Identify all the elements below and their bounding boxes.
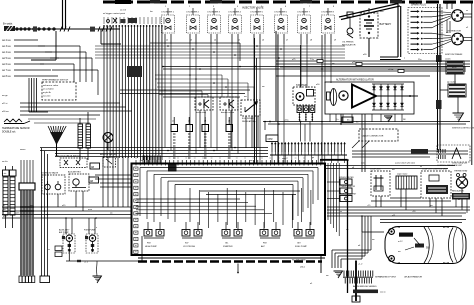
main bus lines (mid) — [40, 148, 468, 158]
solenoid valve — [41, 172, 65, 194]
bus +15 lines (upper right) — [276, 59, 470, 76]
windshield heater element — [396, 172, 417, 189]
trunk top labels — [103, 12, 164, 24]
svg-text:o31w: o31w — [300, 267, 305, 269]
wires from relay boxes — [200, 110, 258, 148]
connector bar A — [78, 124, 83, 148]
cable lug bar (top-left) — [3, 23, 15, 32]
long bus from trunk y66-69 — [163, 66, 470, 70]
injector valve cylinder 8 — [321, 8, 335, 44]
svg-text:CYLINDER 6: CYLINDER 6 — [274, 12, 288, 14]
wires from injectors down — [165, 44, 331, 163]
separating point comb — [343, 271, 422, 284]
svg-text:motor relay: motor relay — [196, 111, 206, 114]
svg-text:onm: onm — [88, 209, 92, 211]
temperature sensor II (coil symbol) — [2, 119, 30, 134]
board AB codes (left column) — [134, 167, 138, 253]
svg-text:REAR PLUG: REAR PLUG — [444, 2, 456, 5]
control pressure unit — [437, 128, 474, 167]
wires under control unit — [20, 103, 132, 123]
svg-text:CYLINDER 3: CYLINDER 3 — [207, 12, 221, 14]
loom top feed wires — [21, 160, 33, 183]
svg-text:SEPARATING POINT: SEPARATING POINT — [375, 276, 397, 279]
starter terminal cluster — [297, 106, 315, 122]
svg-text:TEMPERATURE SENSOR: TEMPERATURE SENSOR — [2, 127, 30, 130]
svg-text:xx: xx — [48, 249, 50, 251]
svg-text:SPARK PLUG: SPARK PLUG — [411, 4, 426, 7]
svg-text:UH ALTERNATOR: UH ALTERNATOR — [404, 276, 422, 279]
feed wires to top border — [63, 0, 66, 29]
svg-text:LAMP CHECK UNIT: LAMP CHECK UNIT — [339, 193, 357, 196]
dimmer sensor — [220, 97, 238, 114]
spark plug leads — [432, 11, 451, 49]
injector valve cylinder 1 — [161, 8, 175, 44]
svg-text:SPEEDOMETER: SPEEDOMETER — [339, 177, 354, 179]
bus lines y90-96 (center) — [120, 90, 250, 97]
svg-text:CABLE CONNECTOR: CABLE CONNECTOR — [362, 135, 384, 138]
junction dots center — [164, 45, 282, 125]
svg-text:xx: xx — [135, 157, 137, 159]
connector code box — [266, 135, 278, 142]
svg-text:OH#: OH# — [268, 138, 274, 141]
svg-text:ALP: ALP — [261, 245, 266, 248]
svg-text:+15w: +15w — [388, 69, 394, 71]
main cable loom — [19, 183, 35, 283]
svg-text:PERFORMANCE SWITCH: PERFORMANCE SWITCH — [42, 79, 69, 82]
svg-text:xx: xx — [143, 157, 145, 159]
svg-text:nw wire: nw wire — [43, 95, 51, 98]
injector valve cylinder 6 — [274, 8, 288, 44]
triple feed wires — [40, 148, 50, 283]
svg-text:xx: xx — [295, 157, 297, 159]
svg-text:xx: xx — [253, 157, 255, 159]
svg-text:DOUBLE w/c: DOUBLE w/c — [2, 132, 16, 134]
svg-text:CONTROL PRESSURE UNIT: CONTROL PRESSURE UNIT — [437, 165, 463, 167]
svg-text:HIGH PUMP: HIGH PUMP — [145, 246, 157, 248]
svg-text:ow 3 res: ow 3 res — [2, 45, 12, 48]
svg-text:xxx xx: xxx xx — [380, 292, 386, 294]
svg-text:xx: xx — [261, 157, 263, 159]
battery — [360, 8, 391, 57]
oil pressure sender — [342, 12, 356, 47]
svg-text:B+ walot: B+ walot — [3, 23, 13, 26]
svg-text:xx: xx — [194, 157, 196, 159]
trunk switch symbol — [107, 18, 138, 23]
injector valve cylinder 5 — [250, 8, 264, 44]
top right corner label — [418, 2, 456, 5]
connector chain wire — [15, 28, 120, 30]
svg-text:IDLE SPEED: IDLE SPEED — [242, 118, 254, 120]
svg-text:AUXILIARY: AUXILIARY — [59, 229, 70, 232]
svg-text:o8: o8 — [310, 40, 312, 42]
board input module (dark) — [168, 165, 177, 172]
connector code AB2 — [89, 177, 99, 183]
right mid component wires — [371, 189, 451, 216]
page border right — [471, 2, 473, 165]
left area routing wires — [38, 46, 98, 95]
injector valve cylinder 4 — [228, 8, 242, 44]
connector bar B — [86, 124, 91, 148]
control unit (left, dashed) — [42, 79, 76, 101]
distributor 2 — [445, 31, 472, 56]
svg-text:aux/at clutch w/b valve: aux/at clutch w/b valve — [395, 162, 416, 165]
cable connector (dashed) — [352, 129, 398, 148]
svg-text:CYLINDER 8: CYLINDER 8 — [321, 12, 335, 14]
main vertical feed (bottom center) — [320, 160, 356, 301]
svg-text:BATTERY: BATTERY — [380, 22, 392, 26]
trigger box — [103, 157, 116, 167]
svg-text:xv: xv — [466, 10, 468, 12]
svg-text:o2: o2 — [166, 40, 168, 42]
svg-text:xx: xx — [152, 157, 154, 159]
svg-text:COMFORT CONTROL UNIT: COMFORT CONTROL UNIT — [422, 168, 448, 170]
board bottom stub — [237, 264, 239, 274]
temperature control unit — [421, 168, 451, 198]
svg-text:o4: o4 — [214, 40, 216, 42]
svg-text:SOLENOID VALVE: SOLENOID VALVE — [41, 172, 59, 175]
board header comb — [143, 156, 161, 164]
center vertical feeders — [255, 31, 323, 163]
svg-text:xx: xx — [227, 157, 229, 159]
svg-text:CYLINDER 4: CYLINDER 4 — [228, 12, 242, 14]
svg-text:REGULATOR: REGULATOR — [342, 44, 356, 47]
bus lines y46-58 — [95, 46, 345, 58]
relay F1E high pump — [144, 222, 164, 248]
svg-text:stroke safety unit: stroke safety unit — [452, 162, 468, 165]
page border top (dashed trim line) — [103, 0, 474, 4]
central electric board (outline) — [132, 164, 326, 256]
injector valve cylinder 2 — [186, 8, 200, 44]
svg-text:CYLINDER 5: CYLINDER 5 — [250, 12, 264, 14]
injector valve cylinder 7 — [297, 8, 311, 44]
svg-text:o3: o3 — [190, 40, 192, 42]
svg-text:wiper motor: wiper motor — [397, 172, 408, 175]
thermostat — [454, 170, 468, 207]
svg-text:xx: xx — [202, 157, 204, 159]
svg-text:o9: o9 — [334, 40, 336, 42]
air flow sensor (circle-X) — [100, 133, 117, 157]
starter-to-connector drops — [301, 122, 311, 142]
lamp check unit box — [327, 193, 357, 202]
left small codes — [48, 246, 62, 257]
board internal wiring mesh — [136, 168, 318, 229]
wire tag smudges under injectors — [166, 40, 336, 42]
spark plug block — [408, 4, 442, 54]
svg-text:xwm: xwm — [282, 158, 287, 160]
svg-text:xwvm: xwvm — [20, 149, 26, 151]
svg-text:ow 5 res: ow 5 res — [2, 57, 12, 60]
svg-text:ALTERNATOR WITH REGULATOR: ALTERNATOR WITH REGULATOR — [336, 79, 374, 82]
ground (pump rail) — [93, 276, 102, 283]
car silhouette (top view) — [385, 227, 466, 264]
idle speed regulator — [241, 100, 260, 123]
svg-text:lwr: lwr — [150, 10, 153, 13]
left vertical wire group — [29, 78, 48, 112]
wires right of board — [328, 163, 341, 268]
svg-text:AUX AIR REG: AUX AIR REG — [68, 171, 81, 174]
feed lines into board (left) — [95, 175, 132, 187]
svg-text:REGULATOR: REGULATOR — [452, 190, 464, 193]
svg-text:xx: xx — [286, 157, 288, 159]
starter — [293, 84, 315, 105]
svg-text:SLOWDOWN: SLOWDOWN — [292, 259, 306, 261]
svg-text:FUEL PUMP: FUEL PUMP — [295, 246, 307, 248]
ignition control unit — [445, 58, 464, 85]
svg-text:COUPLING: COUPLING — [370, 168, 381, 170]
wire y43 from trunk — [150, 43, 240, 61]
power window box — [327, 186, 355, 194]
left margin terminal labels — [2, 39, 59, 78]
svg-text:xx: xx — [303, 157, 305, 159]
svg-text:ow 7 res: ow 7 res — [2, 69, 12, 72]
svg-text:F1E: F1E — [263, 243, 267, 245]
svg-text:xx: xx — [269, 157, 271, 159]
bus 61 lines — [263, 119, 470, 130]
staircase wires to relays — [155, 75, 254, 100]
svg-text:xx: xx — [236, 157, 238, 159]
svg-text:CYLINDER 1: CYLINDER 1 — [161, 12, 175, 14]
corner nest wires — [332, 216, 371, 259]
svg-text:THROTTLE VALVE SWITCH: THROTTLE VALVE SWITCH — [55, 155, 81, 158]
svg-text:AB: AB — [90, 180, 94, 183]
auxiliary air pump — [59, 229, 75, 262]
ignition starter switch — [447, 81, 466, 98]
svg-text:IGNITION TRANSF: IGNITION TRANSF — [445, 53, 463, 56]
svg-text:ow 2 res: ow 2 res — [2, 39, 12, 42]
svg-text:OIL PRESS: OIL PRESS — [342, 42, 354, 44]
wires from connector bars L — [6, 166, 13, 228]
svg-text:LR STRONG: LR STRONG — [183, 246, 196, 248]
svg-text:xx: xx — [160, 157, 162, 159]
svg-text:o30 sw: o30 sw — [2, 111, 9, 113]
board bottom rail — [138, 258, 325, 262]
svg-text:DISTRIBUTOR: DISTRIBUTOR — [447, 31, 462, 33]
ground (right column) — [453, 97, 464, 122]
svg-text:AB: AB — [91, 166, 95, 169]
svg-text:w/ trigger contact point: w/ trigger contact point — [103, 12, 125, 15]
svg-text:m pkt lb: m pkt lb — [43, 91, 51, 94]
relay F1E alp — [260, 222, 280, 248]
connector chain symbols — [16, 26, 112, 31]
svg-text:F1E: F1E — [147, 243, 151, 245]
svg-text:FUEL PUMP: FUEL PUMP — [84, 230, 96, 232]
svg-text:xx/x: xx/x — [361, 163, 365, 165]
relay GIV fuel pump — [294, 222, 314, 248]
alternator with regulator — [325, 79, 414, 115]
svg-text:xw thr: xw thr — [2, 160, 8, 163]
wires from connector bars — [80, 112, 88, 160]
svg-text:o5: o5 — [238, 40, 240, 42]
bus lines left (y207-218) — [2, 205, 132, 218]
aux air regulator — [68, 171, 89, 191]
fuel pump (left) — [84, 230, 98, 254]
border stub wires — [447, 2, 452, 9]
bus lines from board to right units — [325, 166, 455, 169]
wire corner right of chain — [101, 29, 121, 44]
svg-text:ign starter: ign starter — [447, 81, 456, 84]
svg-text:o7: o7 — [286, 40, 288, 42]
svg-text:xw mh: xw mh — [120, 10, 127, 12]
wire drop from chain — [31, 31, 56, 60]
bottom label bar — [352, 285, 386, 302]
svg-text:CYLINDER 2: CYLINDER 2 — [186, 12, 200, 14]
connector code AB1 — [90, 163, 100, 169]
board top pin ticks — [135, 157, 321, 165]
relay KIV lr strong — [182, 222, 202, 248]
motor relay — [195, 97, 213, 114]
svg-text:THERMOSTAT: THERMOSTAT — [454, 170, 468, 173]
plug connector bar L1 — [3, 170, 10, 215]
right feed bus — [436, 4, 448, 150]
main feed diagonal wires — [339, 4, 401, 60]
svg-text:xx: xx — [185, 157, 187, 159]
svg-text:REGULATOR: REGULATOR — [242, 120, 255, 123]
svg-text:xx: xx — [211, 157, 213, 159]
svg-text:POWER WINDOW: POWER WINDOW — [339, 186, 355, 188]
alternator lower wires — [330, 96, 418, 172]
svg-text:STARTER: STARTER — [223, 245, 233, 248]
trunk lower wires — [103, 157, 128, 207]
svg-text:on schalter: on schalter — [43, 88, 54, 91]
svg-text:dimmer sensor: dimmer sensor — [221, 112, 235, 114]
injector valve cylinder 3 — [207, 8, 221, 44]
harness terminal blocks with vertical labels — [171, 117, 233, 158]
relay GIL starter — [222, 222, 242, 248]
cable splice fan (converging wires) — [48, 126, 66, 156]
svg-text:ow gn: ow gn — [2, 95, 8, 97]
cable connector pins — [270, 142, 347, 163]
junction dots extra — [41, 66, 441, 262]
svg-text:xx: xx — [169, 157, 171, 159]
speedometer box — [327, 177, 354, 185]
svg-text:STARTER: STARTER — [296, 84, 307, 87]
svg-text:ow 4 res: ow 4 res — [2, 51, 12, 54]
svg-text:xx: xx — [278, 157, 280, 159]
pump wires — [66, 218, 142, 276]
throttle valve switch — [55, 155, 87, 168]
svg-text:IGNITION CONTROL UNIT: IGNITION CONTROL UNIT — [452, 128, 474, 130]
wiring trunk bundle (ECU harness) — [103, 25, 163, 160]
solenoid drops — [48, 191, 84, 211]
svg-text:switch: switch — [445, 58, 451, 61]
distributor 1 — [452, 10, 472, 22]
svg-text:wchmvce sahor: wchmvce sahor — [43, 84, 58, 87]
bus lines right (y207-216) — [327, 205, 470, 223]
regulator striped bar — [452, 190, 470, 213]
misc right labels — [361, 162, 468, 165]
svg-text:o15 rt: o15 rt — [2, 102, 8, 105]
car pointer wires — [358, 216, 384, 266]
ground (separating) — [334, 271, 343, 278]
svg-text:ow 6 res: ow 6 res — [2, 63, 12, 66]
svg-text:xx: xx — [418, 2, 420, 4]
svg-text:ALLIS BRIDGE SERIES: ALLIS BRIDGE SERIES — [353, 285, 377, 288]
svg-text:CYLINDER 7: CYLINDER 7 — [297, 12, 311, 14]
svg-text:xx: xx — [219, 157, 221, 159]
svg-text:o6: o6 — [262, 40, 264, 42]
injector valve row label — [242, 6, 264, 10]
svg-text:xx: xx — [244, 157, 246, 159]
coupling switch — [370, 168, 390, 196]
svg-text:xx: xx — [177, 157, 179, 159]
svg-text:GIV: GIV — [297, 243, 301, 245]
pin numbers above injectors — [165, 6, 335, 8]
plug connector bar L2 — [10, 170, 17, 215]
svg-text:ow 8 res: ow 8 res — [2, 75, 12, 78]
